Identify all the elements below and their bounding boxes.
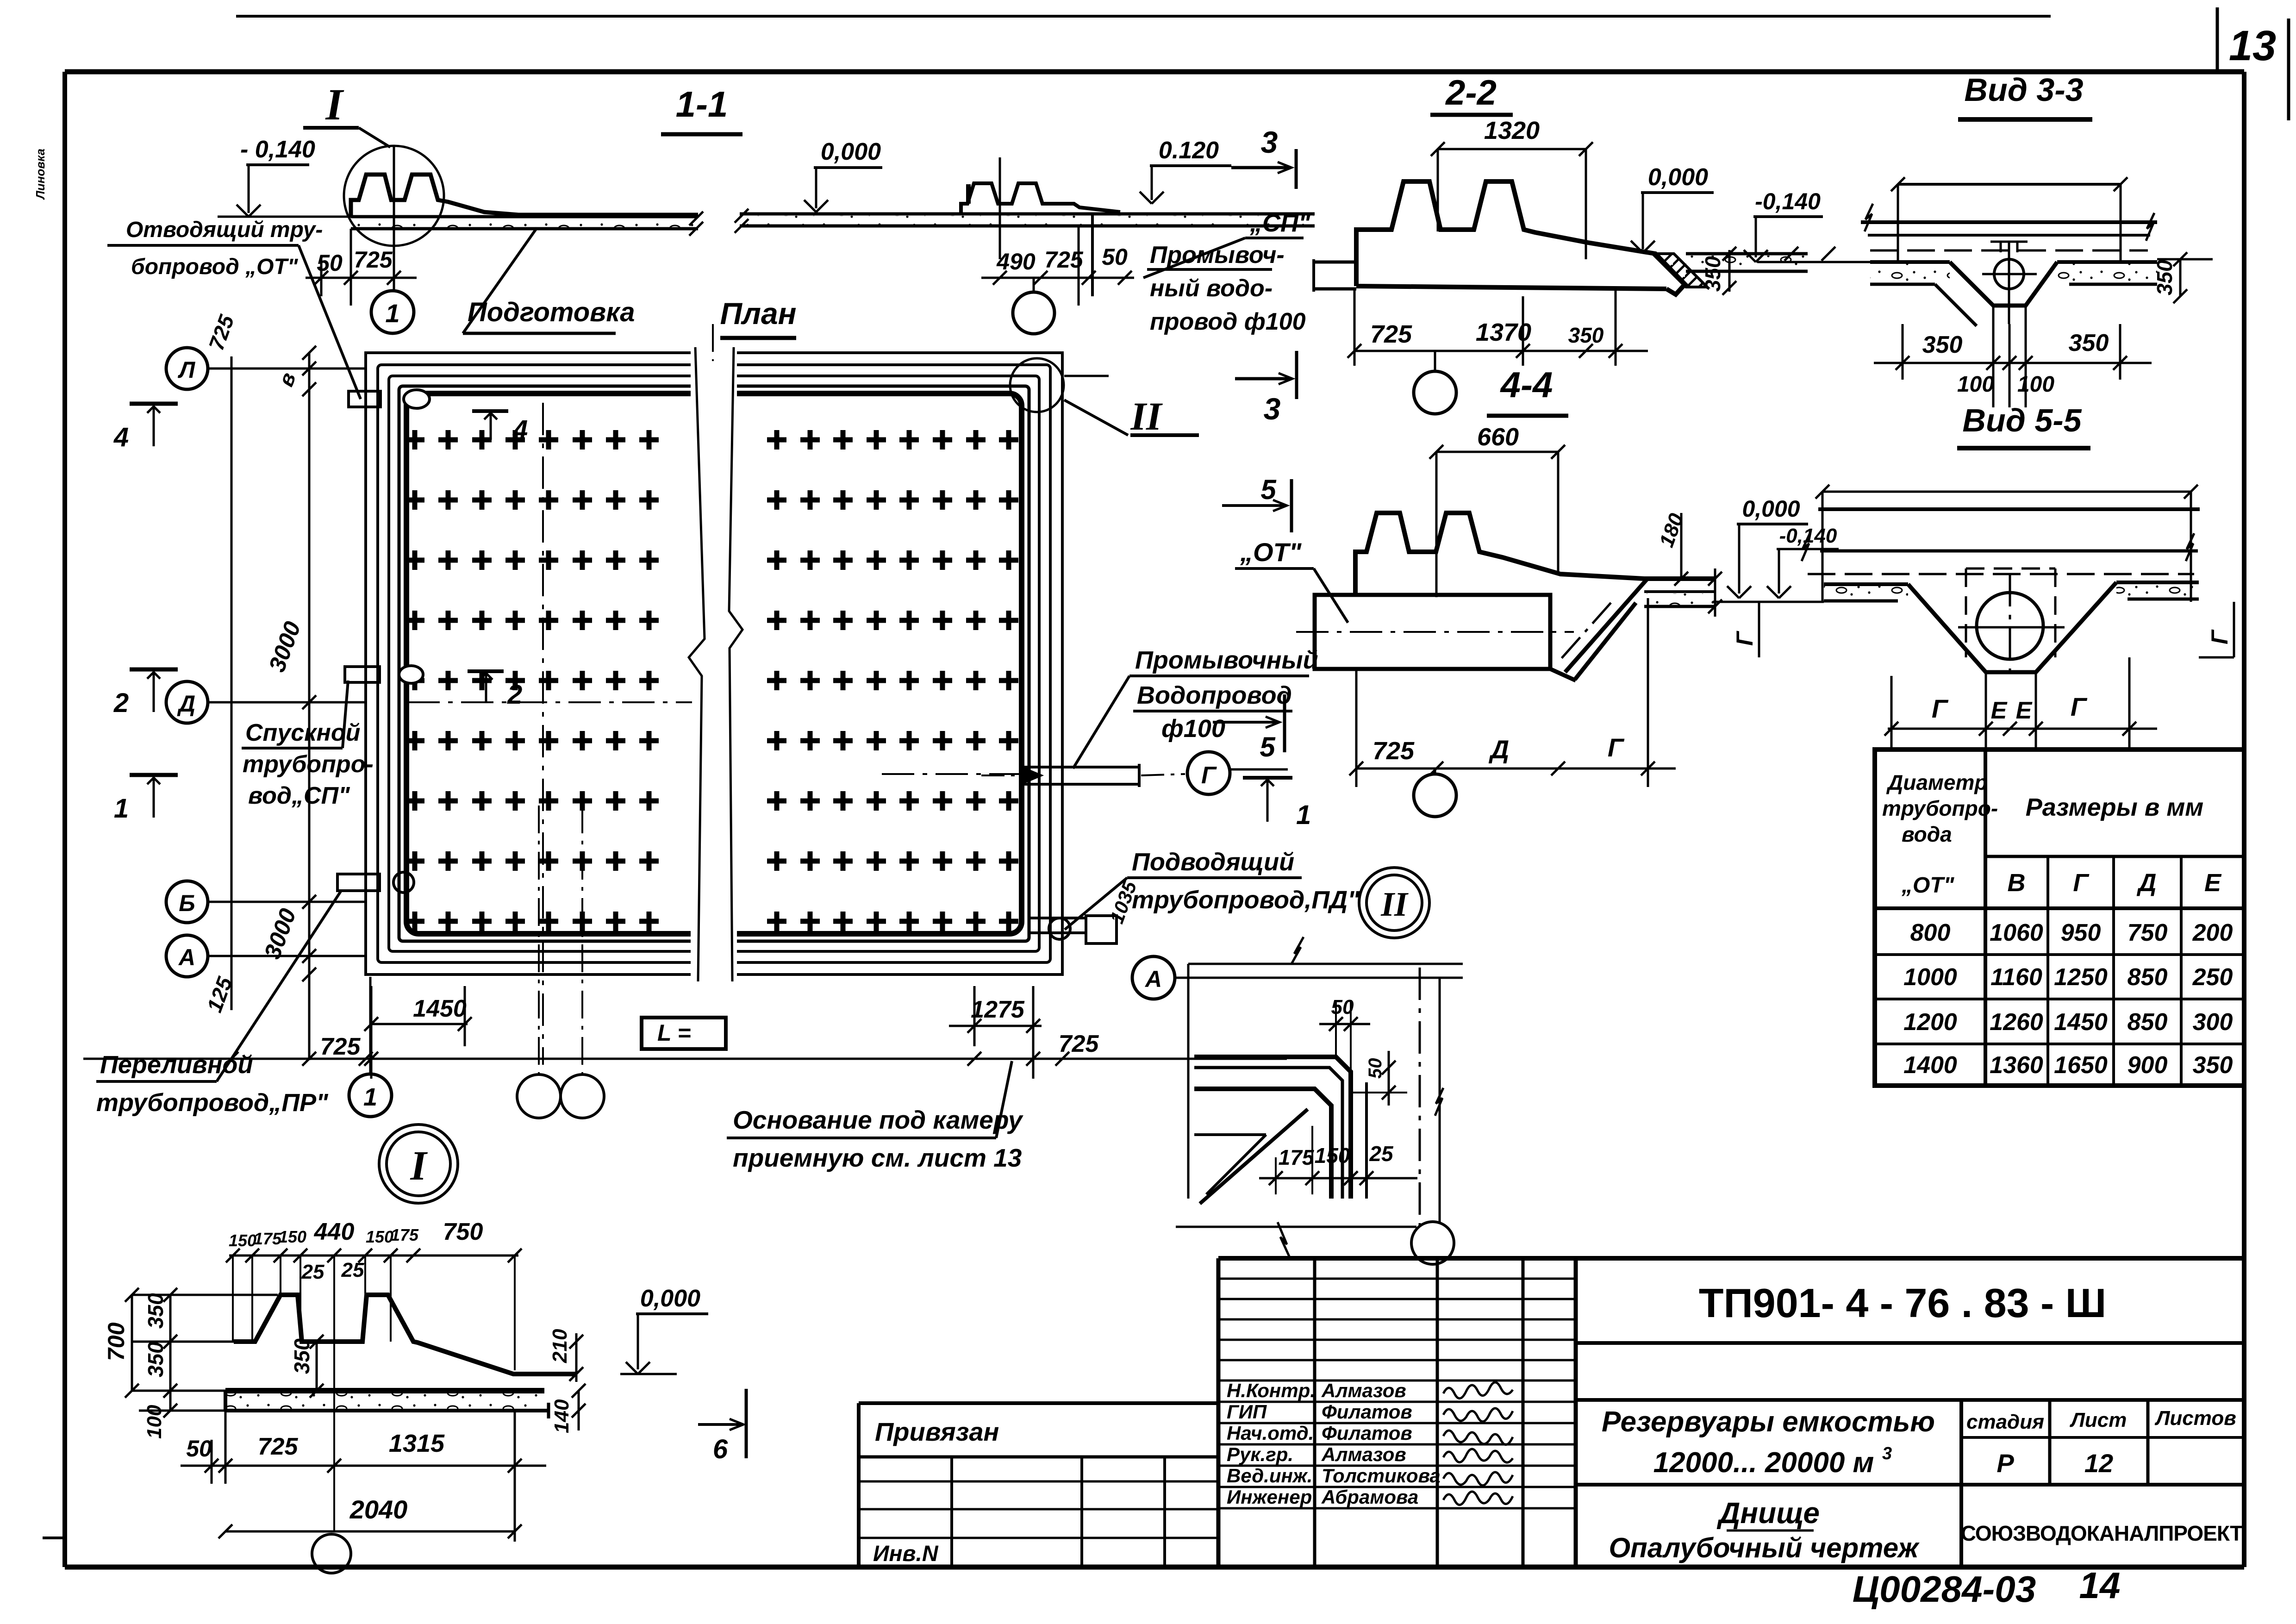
svg-text:Филатов: Филатов xyxy=(1322,1422,1412,1444)
svg-text:Е: Е xyxy=(2016,697,2033,724)
svg-text:150: 150 xyxy=(1315,1143,1350,1168)
svg-text:вода: вода xyxy=(1902,822,1952,846)
svg-text:А: А xyxy=(1144,966,1162,992)
svg-text:150: 150 xyxy=(366,1227,393,1246)
svg-text:750: 750 xyxy=(443,1218,483,1245)
svg-text:II: II xyxy=(1380,886,1409,924)
svg-text:140: 140 xyxy=(550,1399,573,1433)
svg-text:1: 1 xyxy=(385,299,399,328)
svg-text:СОЮЗВОДОКАНАЛПРОЕКТ: СОЮЗВОДОКАНАЛПРОЕКТ xyxy=(1961,1521,2243,1545)
svg-text:Промывоч-: Промывоч- xyxy=(1150,242,1285,269)
svg-text:25: 25 xyxy=(301,1261,324,1283)
svg-text:950: 950 xyxy=(2061,919,2101,946)
svg-text:приемную см. лист 13: приемную см. лист 13 xyxy=(733,1143,1022,1172)
svg-text:100: 100 xyxy=(1957,372,1994,397)
svg-text:25: 25 xyxy=(1369,1142,1394,1166)
svg-text:0,000: 0,000 xyxy=(1648,164,1708,191)
svg-text:2: 2 xyxy=(507,680,522,710)
svg-text:Филатов: Филатов xyxy=(1322,1401,1412,1423)
svg-text:Инв.N: Инв.N xyxy=(873,1542,939,1566)
svg-text:Г: Г xyxy=(2073,869,2090,897)
svg-text:725: 725 xyxy=(354,247,393,273)
svg-text:Водопровод: Водопровод xyxy=(1137,681,1292,709)
svg-text:50: 50 xyxy=(186,1436,212,1462)
svg-text:стадия: стадия xyxy=(1966,1411,2044,1433)
svg-text:50: 50 xyxy=(1365,1058,1385,1079)
svg-text:Промывочный: Промывочный xyxy=(1135,646,1318,674)
svg-text:L =: L = xyxy=(657,1020,691,1046)
svg-text:350: 350 xyxy=(2069,330,2109,356)
svg-text:350: 350 xyxy=(143,1293,168,1329)
svg-text:800: 800 xyxy=(1910,919,1951,946)
svg-text:1275: 1275 xyxy=(971,996,1025,1023)
svg-text:Е: Е xyxy=(1991,697,2008,724)
svg-text:900: 900 xyxy=(2128,1052,2168,1079)
svg-text:1060: 1060 xyxy=(1990,919,2043,946)
svg-text:350: 350 xyxy=(1568,323,1604,347)
svg-text:4: 4 xyxy=(113,422,129,452)
svg-text:Ц00284-03: Ц00284-03 xyxy=(1853,1568,2036,1610)
svg-text:Основание под камеру: Основание под камеру xyxy=(733,1106,1023,1134)
svg-text:Толстикова: Толстикова xyxy=(1322,1465,1441,1487)
svg-text:100: 100 xyxy=(2017,372,2054,397)
svg-text:50: 50 xyxy=(1102,244,1128,270)
svg-text:вод„СП": вод„СП" xyxy=(248,782,350,809)
svg-text:Г: Г xyxy=(1732,631,1758,646)
svg-text:0,000: 0,000 xyxy=(1742,496,1800,522)
svg-text:Опалубочный чертеж: Опалубочный чертеж xyxy=(1609,1532,1920,1563)
svg-text:Д: Д xyxy=(2137,869,2157,897)
svg-text:ГИП: ГИП xyxy=(1227,1401,1267,1423)
svg-text:Г: Г xyxy=(2207,629,2233,644)
svg-text:II: II xyxy=(1130,394,1163,438)
svg-text:3: 3 xyxy=(1264,392,1281,426)
svg-text:Лист: Лист xyxy=(2070,1409,2127,1431)
svg-text:4: 4 xyxy=(512,415,528,445)
svg-text:725: 725 xyxy=(1059,1031,1099,1057)
svg-text:175: 175 xyxy=(391,1225,419,1244)
svg-text:План: План xyxy=(720,296,796,331)
svg-text:Абрамова: Абрамова xyxy=(1321,1486,1418,1508)
svg-text:6: 6 xyxy=(713,1434,728,1464)
svg-text:Привязан: Привязан xyxy=(875,1417,999,1446)
svg-text:Г: Г xyxy=(2071,692,2088,721)
svg-text:Переливной: Переливной xyxy=(100,1051,253,1079)
svg-text:Инженер: Инженер xyxy=(1227,1486,1312,1508)
svg-text:1315: 1315 xyxy=(389,1430,445,1457)
svg-text:490: 490 xyxy=(996,249,1036,275)
svg-text:-0,140: -0,140 xyxy=(1779,525,1837,547)
svg-text:350: 350 xyxy=(290,1338,314,1374)
svg-text:0.120: 0.120 xyxy=(1159,137,1219,164)
svg-text:Диаметр: Диаметр xyxy=(1886,770,1988,794)
svg-text:300: 300 xyxy=(2193,1009,2233,1036)
svg-text:4-4: 4-4 xyxy=(1500,364,1553,405)
svg-text:трубопро-: трубопро- xyxy=(243,751,374,778)
svg-text:2: 2 xyxy=(113,688,129,718)
svg-text:Размеры в мм: Размеры в мм xyxy=(2026,793,2204,821)
svg-text:I: I xyxy=(325,80,344,129)
svg-text:провод ф100: провод ф100 xyxy=(1150,308,1306,335)
svg-text:Вид 5-5: Вид 5-5 xyxy=(1962,402,2082,438)
svg-text:1450: 1450 xyxy=(2054,1009,2108,1036)
svg-text:Н.Контр.: Н.Контр. xyxy=(1227,1380,1316,1401)
svg-text:12000... 20000 м: 12000... 20000 м xyxy=(1653,1447,1874,1479)
svg-text:2040: 2040 xyxy=(349,1495,408,1524)
svg-text:200: 200 xyxy=(2192,919,2233,946)
svg-text:12: 12 xyxy=(2084,1449,2113,1478)
svg-text:1400: 1400 xyxy=(1903,1052,1957,1079)
svg-text:В: В xyxy=(2008,869,2026,897)
svg-text:Рук.гр.: Рук.гр. xyxy=(1227,1443,1293,1465)
svg-text:Л: Л xyxy=(178,357,196,383)
svg-text:„ОТ": „ОТ" xyxy=(1240,537,1302,567)
svg-text:350: 350 xyxy=(1922,331,1963,358)
svg-text:ТП901- 4 - 76 . 83 - Ш: ТП901- 4 - 76 . 83 - Ш xyxy=(1699,1280,2106,1326)
svg-text:210: 210 xyxy=(549,1329,571,1363)
svg-text:725: 725 xyxy=(1370,320,1412,348)
svg-text:1: 1 xyxy=(114,793,129,824)
svg-text:Алмазов: Алмазов xyxy=(1321,1443,1406,1465)
svg-text:350: 350 xyxy=(2193,1052,2233,1079)
svg-text:5: 5 xyxy=(1260,731,1276,762)
svg-text:Вед.инж.: Вед.инж. xyxy=(1227,1465,1312,1487)
svg-text:ный водо-: ный водо- xyxy=(1150,275,1273,302)
svg-text:750: 750 xyxy=(2128,919,2168,946)
svg-text:175: 175 xyxy=(254,1229,282,1248)
svg-text:2-2: 2-2 xyxy=(1445,73,1497,112)
svg-text:Листов: Листов xyxy=(2154,1407,2236,1430)
svg-text:Отводящий тру-: Отводящий тру- xyxy=(126,218,323,242)
svg-text:850: 850 xyxy=(2128,964,2168,991)
svg-text:700: 700 xyxy=(103,1322,129,1361)
svg-text:Е: Е xyxy=(2204,869,2222,897)
svg-text:1200: 1200 xyxy=(1903,1009,1957,1036)
svg-text:25: 25 xyxy=(341,1259,364,1281)
svg-text:1: 1 xyxy=(363,1083,377,1111)
svg-text:1-1: 1-1 xyxy=(676,84,728,125)
svg-text:3: 3 xyxy=(1261,125,1278,159)
svg-text:трубопровод„ПР": трубопровод„ПР" xyxy=(96,1089,329,1117)
svg-text:725: 725 xyxy=(320,1033,361,1060)
svg-text:Д: Д xyxy=(1489,735,1509,764)
svg-text:1000: 1000 xyxy=(1903,964,1957,991)
svg-text:Р: Р xyxy=(1997,1449,2014,1478)
svg-text:трубопро-: трубопро- xyxy=(1882,796,1998,820)
svg-text:1320: 1320 xyxy=(1484,117,1540,144)
svg-text:Нач.отд.: Нач.отд. xyxy=(1227,1422,1314,1444)
svg-text:„ОТ": „ОТ" xyxy=(1901,873,1955,898)
svg-text:13: 13 xyxy=(2229,22,2276,69)
svg-text:Г: Г xyxy=(1201,762,1217,789)
svg-text:440: 440 xyxy=(314,1218,355,1245)
svg-text:1250: 1250 xyxy=(2054,964,2108,991)
svg-text:725: 725 xyxy=(258,1433,299,1460)
svg-text:Г: Г xyxy=(1932,694,1949,723)
svg-text:1: 1 xyxy=(1296,800,1311,830)
svg-text:Днище: Днище xyxy=(1716,1496,1820,1530)
svg-text:850: 850 xyxy=(2128,1009,2168,1036)
svg-text:250: 250 xyxy=(2192,964,2233,991)
svg-text:„СП": „СП" xyxy=(1249,209,1311,237)
svg-text:-0,140: -0,140 xyxy=(1755,188,1821,214)
svg-text:1650: 1650 xyxy=(2054,1052,2108,1079)
svg-text:14: 14 xyxy=(2079,1565,2121,1606)
svg-text:Подводящий: Подводящий xyxy=(1132,848,1294,876)
svg-text:0,000: 0,000 xyxy=(821,138,881,165)
svg-text:Алмазов: Алмазов xyxy=(1321,1380,1406,1401)
svg-text:660: 660 xyxy=(1477,423,1519,451)
svg-text:1450: 1450 xyxy=(413,995,467,1022)
svg-text:Резервуары емкостью: Резервуары емкостью xyxy=(1602,1406,1935,1438)
svg-text:175: 175 xyxy=(1279,1145,1315,1169)
svg-text:А: А xyxy=(178,944,195,970)
svg-text:ф100: ф100 xyxy=(1161,715,1225,743)
svg-text:Д: Д xyxy=(177,691,195,717)
svg-text:0,000: 0,000 xyxy=(640,1285,700,1312)
svg-text:Г: Г xyxy=(1608,733,1625,762)
svg-text:1160: 1160 xyxy=(1990,964,2042,991)
svg-text:I: I xyxy=(410,1143,428,1189)
svg-text:350: 350 xyxy=(1701,256,1725,292)
svg-text:Подготовка: Подготовка xyxy=(468,297,635,327)
svg-text:бопровод „ОТ": бопровод „ОТ" xyxy=(131,255,299,279)
svg-text:трубопровод,ПД": трубопровод,ПД" xyxy=(1132,886,1360,914)
svg-text:Б: Б xyxy=(179,890,195,916)
svg-text:1360: 1360 xyxy=(1990,1052,2043,1079)
svg-text:- 0,140: - 0,140 xyxy=(240,136,315,163)
svg-text:3: 3 xyxy=(1882,1444,1892,1463)
svg-text:150: 150 xyxy=(229,1231,256,1250)
svg-text:Вид 3-3: Вид 3-3 xyxy=(1964,72,2083,108)
svg-text:Линовка: Линовка xyxy=(33,149,47,200)
svg-text:150: 150 xyxy=(279,1227,306,1246)
svg-text:725: 725 xyxy=(1373,737,1415,765)
svg-text:1260: 1260 xyxy=(1990,1009,2043,1036)
